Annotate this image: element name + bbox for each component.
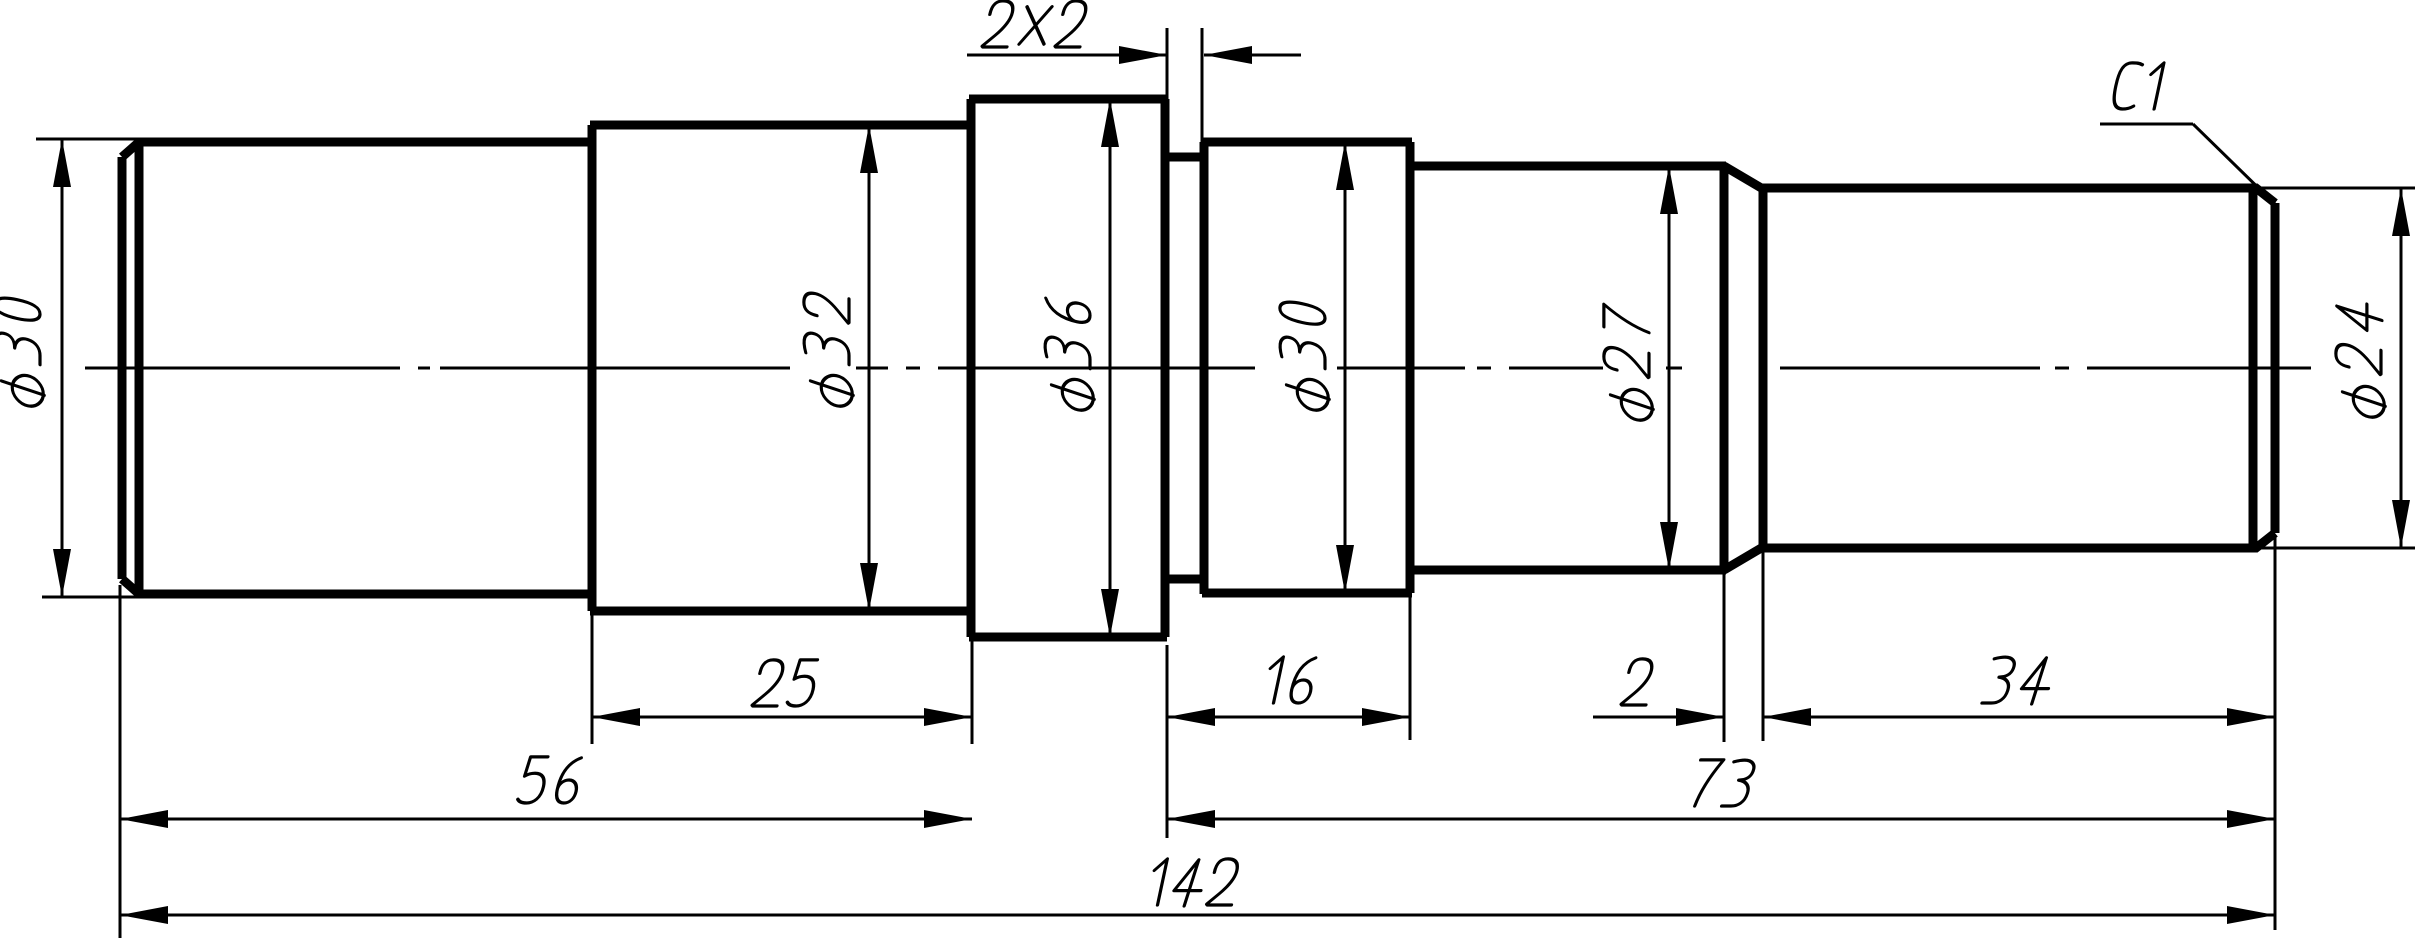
phi24 chamfer cone edge circle [1759,188,1768,548]
label 2 [1621,659,1656,705]
centerline axis [85,367,2311,370]
label 2x2 [982,1,1090,47]
dimension 73 [1167,818,2275,821]
dimension phi36 [1109,99,1112,637]
phi30 section bottom generatrix [137,590,594,599]
groove bottom top side [1163,153,1206,162]
shoulder phi30/phi27 [1406,142,1415,593]
dimension phi32 [868,125,871,611]
ext line phi30 top [36,138,142,141]
left chamfer slant bottom [122,579,139,594]
ext line 2 left [1723,574,1726,742]
label phi32 [804,289,853,409]
label 56 [517,757,583,803]
label 73 [1691,760,1756,806]
phi24 section top generatrix with chamfer [1761,188,2275,203]
dimension phi24 [2400,188,2403,548]
ext line 2 right [1762,552,1765,741]
label phi24 [2336,297,2385,420]
left end face (chamfered) [118,157,127,579]
dimension 56 [120,818,972,821]
phi36 right face / groove left wall [1161,99,1170,637]
ext line left datum vertical [119,585,122,938]
label 25 [752,660,819,706]
left chamfer slant top [122,142,139,157]
label 34 [1982,657,2055,704]
dimension 25 [592,716,972,719]
label 142 [1147,859,1241,906]
dimension 2x2 groove [967,54,1167,57]
label phi30 left [0,295,44,409]
dimension 2 [1593,716,1724,719]
dimension phi30 right [1344,142,1347,593]
ext line phi24 top [2259,187,2415,190]
shaft outline [122,99,2275,637]
leader C1 [2100,123,2193,126]
label 16 [1263,657,1318,703]
cone slant phi27 to phi24 bottom [1724,547,1763,570]
phi36 section top generatrix [969,95,1167,104]
phi32 section top generatrix [590,121,973,130]
phi27 end face shoulder [1720,166,1729,570]
label phi27 [1604,304,1653,423]
dimension 142 [120,914,2275,917]
dimension 34 [1763,716,2275,719]
ext line groove 16/73 [1166,645,1169,838]
shoulder phi30/phi32 [588,125,597,611]
dimension phi27 [1668,166,1671,570]
ext line groove width left [1166,28,1169,99]
label C1 [2111,63,2164,109]
right chamfer edge circle [2249,188,2258,548]
ext line 25 left [591,615,594,744]
ext line 16 right [1409,597,1412,740]
dimension 16 [1167,716,1410,719]
groove bottom lower side [1163,575,1206,584]
label phi36 [1045,296,1094,413]
shoulder phi32/phi36 [967,99,976,637]
ext line right datum vertical [2274,537,2277,930]
right end face (chamfered) [2271,203,2280,533]
phi30 section top generatrix [137,138,594,147]
phi32 section bottom generatrix [590,607,973,616]
ext line 25 right [971,641,974,744]
phi30 right section bottom generatrix [1202,589,1412,598]
cone slant phi27 to phi24 top [1724,166,1763,189]
ext line phi24 bottom [2259,547,2415,550]
phi36 section bottom generatrix [969,633,1167,642]
phi27 section top generatrix [1408,162,1726,171]
label phi30 right [1280,299,1329,413]
phi24 section bottom generatrix with chamfer [1761,533,2275,548]
ext line phi30 bottom [42,596,147,599]
phi27 section bottom generatrix [1408,566,1726,575]
groove right wall / phi30 left face [1200,142,1209,594]
ext line groove width right [1201,28,1204,153]
dimension phi30 left [61,139,64,597]
phi30 right section top generatrix [1202,138,1412,147]
left chamfer edge circle [135,142,144,594]
